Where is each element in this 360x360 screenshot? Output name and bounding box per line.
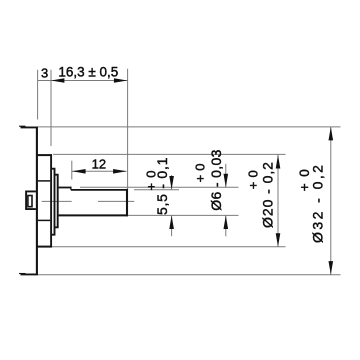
terminal tab inner (28, 196, 32, 207)
arrow 16,3 right (114, 78, 128, 83)
arrow 16,3 left (51, 78, 65, 83)
arrow 12 left (72, 169, 86, 174)
arrow O6 bottom (224, 216, 229, 230)
svg-text:+ 0: + 0 (144, 170, 159, 191)
Ø20 cylinder top edge (37, 154, 52, 156)
Ø20 cylinder right face (50, 154, 52, 247)
dimension line 5,5 upper (171, 175, 173, 189)
svg-text:3: 3 (41, 66, 48, 81)
top dimension line 3 / 16,3 (38, 80, 128, 82)
flat top extension line (134, 189, 179, 191)
svg-text:Ø6 - 0,03: Ø6 - 0,03 (208, 149, 224, 211)
body top foot (break) (21, 126, 38, 128)
extension line E1 body left face (37, 70, 39, 120)
inner hub bottom line (38, 219, 50, 221)
arrowheads (51, 78, 333, 274)
shaft step to flat (70, 187, 72, 190)
dimension line Ø32 (330, 127, 332, 275)
arrow O20 bottom (276, 233, 281, 247)
arrow O6 top (224, 174, 229, 188)
extension line E2 body right face (50, 70, 52, 146)
svg-text:+ 0: + 0 (192, 163, 207, 182)
terminal tab outer (26, 191, 36, 209)
arrow 5,5 bottom (169, 216, 174, 230)
arrow 5,5 top (169, 176, 174, 190)
centerline (42, 200, 135, 202)
body top foot jog (19, 125, 26, 127)
shaft full-diameter top edge (59, 187, 71, 189)
svg-text:Ø20 - 0,2: Ø20 - 0,2 (259, 161, 275, 228)
body left edge (36, 127, 38, 275)
dimension line Ø6 upper (225, 164, 227, 187)
shaft bottom edge (59, 214, 128, 216)
extension line for 12 (71, 161, 73, 180)
Ø32 bottom extension line (38, 274, 341, 276)
svg-text:+ 0: + 0 (297, 168, 312, 191)
Ø20 top extension line (53, 153, 285, 155)
shaft end edge (126, 189, 128, 216)
Ø32 top extension line (38, 126, 341, 128)
inner hub top line (38, 180, 50, 182)
thin extension / dimension lines (38, 69, 341, 275)
svg-text:16,3 ± 0,5: 16,3 ± 0,5 (58, 64, 118, 79)
arrow 12 right (113, 169, 127, 174)
arrow O32 top (329, 127, 334, 140)
washer C (55, 175, 58, 228)
svg-text:+ 0: + 0 (246, 170, 261, 189)
arrow O32 bottom (329, 261, 334, 275)
dimension line Ø20 (277, 155, 279, 247)
arrow O20 top (276, 155, 281, 169)
Ø6 top extension line (80, 186, 239, 188)
dimension line Ø6 lower (225, 216, 227, 237)
washer B (51, 169, 54, 235)
Ø20 cylinder bottom edge (37, 246, 52, 248)
dimension line 5,5 lower (171, 216, 173, 237)
shaft bottom extension line (128, 214, 239, 216)
body bottom foot jog (19, 273, 26, 275)
extension line E3 shaft end (127, 69, 129, 190)
svg-text:12: 12 (92, 156, 106, 171)
Ø20 bottom extension line (52, 246, 286, 248)
shaft flat top edge (71, 189, 128, 191)
body bottom foot (break) (21, 273, 38, 275)
dimension line 12 (72, 170, 127, 172)
thick object outline (19, 126, 128, 275)
